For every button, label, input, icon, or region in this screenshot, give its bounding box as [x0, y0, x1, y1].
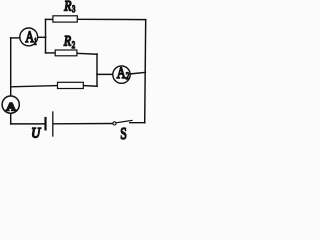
svg-text:3: 3 — [72, 5, 75, 15]
svg-text:R: R — [63, 0, 71, 15]
ammeter A — [2, 96, 19, 113]
svg-text:U: U — [31, 126, 41, 140]
wire: right rail vertical — [145, 20, 146, 123]
wire: switch to bottom right corner — [130, 122, 145, 124]
svg-text:2: 2 — [72, 41, 76, 51]
switch S pivot — [113, 122, 116, 125]
resistor lower box — [58, 82, 84, 88]
svg-text:S: S — [120, 124, 127, 140]
switch S blade — [116, 120, 132, 122]
wire: left junction vertical — [45, 19, 47, 53]
resistor R2 — [55, 50, 77, 56]
ammeter A1 — [20, 28, 38, 46]
wire: battery to switch — [54, 123, 113, 125]
wire: right junction vertical — [96, 54, 98, 86]
battery U long plate — [52, 112, 54, 136]
resistor R3 — [53, 16, 77, 22]
svg-text:A: A — [25, 29, 34, 46]
wire: lower box right lead — [83, 85, 97, 88]
svg-text:A: A — [6, 102, 17, 114]
wire: left rail vertical — [10, 38, 12, 96]
wire: A2 left lead — [97, 73, 113, 75]
svg-text:A: A — [117, 65, 126, 82]
wire: R3 left lead — [46, 18, 54, 20]
wire: A1 right lead — [38, 36, 46, 38]
wire: R2 right lead — [77, 52, 97, 55]
svg-text:2: 2 — [126, 71, 129, 81]
wire: R2 left lead — [46, 52, 56, 54]
ammeter A2 — [113, 66, 130, 83]
svg-text:1: 1 — [34, 36, 36, 46]
wire: top wire from R3 to right rail — [77, 18, 145, 20]
wire: A2 right lead — [130, 72, 145, 74]
svg-text:R: R — [63, 34, 71, 50]
wire: branch to lower resistor box — [11, 86, 58, 87]
battery U short plate — [44, 118, 46, 129]
wire: bottom wire to battery — [11, 123, 45, 125]
wire: ammeter A bottom lead — [10, 113, 12, 124]
wire: A1 left lead to left rail — [11, 37, 20, 39]
